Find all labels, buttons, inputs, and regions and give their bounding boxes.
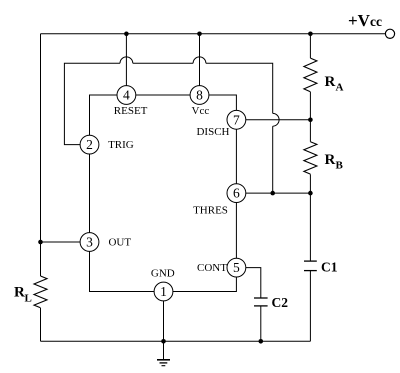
svg-text:B: B: [336, 160, 344, 172]
pin 2 circle: [80, 135, 99, 154]
wire hop of trig vertical over pin7 wire: [273, 113, 279, 126]
svg-text:R: R: [14, 285, 25, 301]
junction dot C2 / ground rail: [259, 339, 264, 344]
svg-text:TRIG: TRIG: [108, 139, 134, 151]
wire trig net: pin2 to left riser: [64, 63, 120, 144]
svg-text:2: 2: [86, 137, 93, 152]
wire RL bottom lead: [40, 308, 42, 341]
terminal +Vcc open circle: [385, 29, 394, 38]
wire top +Vcc rail: [41, 33, 386, 35]
wire from top rail to pin 4: [125, 34, 127, 86]
pin 8 circle: [190, 86, 209, 105]
wire trig net to right corner: [206, 63, 273, 113]
svg-text:GND: GND: [151, 267, 175, 279]
svg-text:8: 8: [196, 88, 203, 103]
wire bottom ground rail: [41, 340, 311, 342]
wire RB top lead: [309, 120, 311, 142]
junction dot out / left rail: [38, 240, 43, 245]
wire from top rail to pin 8: [199, 34, 201, 86]
IC box 555: [90, 95, 237, 292]
svg-text:THRES: THRES: [193, 205, 228, 217]
svg-text:R: R: [325, 152, 336, 168]
wire left outer vertical (top rail to RL): [40, 34, 42, 276]
ground symbol: [163, 341, 165, 359]
svg-text:7: 7: [233, 112, 240, 127]
svg-text:A: A: [336, 82, 344, 94]
junction dot disch row / RA RB: [308, 118, 313, 123]
svg-text:C1: C1: [321, 260, 338, 275]
wire RB bottom lead: [309, 174, 311, 193]
wire RA bottom lead: [309, 92, 311, 120]
wire out net: left rail to pin3: [41, 241, 81, 243]
svg-text:RESET: RESET: [114, 105, 148, 117]
svg-text:Vcc: Vcc: [192, 105, 210, 117]
junction dot top rail / pin4: [124, 32, 129, 37]
svg-text:C2: C2: [272, 295, 289, 310]
resistor RL: [34, 276, 47, 308]
pin 1 circle: [154, 282, 173, 301]
wire hop over pin4 line: [120, 57, 133, 63]
junction dot top rail / pin8: [197, 32, 202, 37]
capacitor C2: [254, 297, 268, 299]
junction dot pin1 ground rail: [161, 339, 166, 344]
svg-text:+Vcc: +Vcc: [348, 11, 382, 30]
pin 6 circle: [227, 184, 246, 203]
svg-text:1: 1: [160, 284, 167, 299]
pin 4 circle: [117, 86, 136, 105]
resistor RB: [304, 142, 317, 174]
svg-text:DISCH: DISCH: [196, 126, 229, 138]
wire trig vertical to thres row: [272, 126, 274, 193]
wire pin5 to C2: [246, 268, 261, 298]
wire pin1 to ground rail: [163, 301, 165, 341]
wire C1 bottom lead: [309, 271, 311, 342]
junction dot thres row / RB C1: [308, 191, 313, 196]
resistor RA: [304, 58, 317, 92]
svg-text:CONT: CONT: [197, 262, 227, 274]
pin 3 circle: [80, 233, 99, 252]
svg-text:3: 3: [86, 235, 93, 250]
pin 5 circle: [227, 258, 246, 277]
junction dot trig/thres: [270, 191, 275, 196]
junction dot top rail / RA: [308, 32, 313, 37]
wire pin7 to RA/RB node: [246, 119, 311, 121]
svg-text:6: 6: [233, 186, 240, 201]
svg-text:5: 5: [233, 260, 240, 275]
wire hop over pin8 line: [193, 57, 206, 63]
pin 7 circle: [227, 110, 246, 129]
wire trig net between hops: [133, 62, 193, 64]
wire RA top lead: [309, 34, 311, 58]
wire pin6 to RB/C1 node: [246, 192, 311, 194]
wire C2 bottom lead: [260, 306, 262, 341]
svg-text:L: L: [25, 293, 32, 305]
svg-text:R: R: [325, 74, 336, 90]
wire C1 top lead: [309, 193, 311, 261]
capacitor C1: [304, 260, 317, 262]
svg-text:OUT: OUT: [108, 237, 131, 249]
svg-text:4: 4: [123, 88, 130, 103]
